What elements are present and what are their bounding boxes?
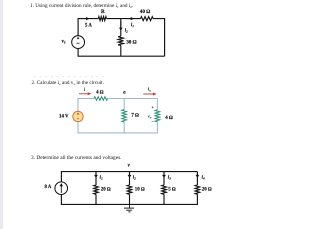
wire bottom rail [78,49,165,57]
svg-text:v: v [128,163,131,168]
svg-text:R: R [101,9,105,15]
voltage source Vs [72,36,85,49]
svg-text:1. Using current division rule: 1. Using current division rule, determin… [30,3,133,9]
svg-text:5 Ω: 5 Ω [168,187,176,193]
resistor 30ohm [118,36,123,45]
wire branch3 lower [163,194,165,204]
current arrow i1 [94,172,98,178]
svg-text:i1: i1 [100,175,103,180]
svg-text:20 Ω: 20 Ω [202,187,212,193]
svg-text:i2: i2 [133,175,136,180]
wire branch1 lower [95,194,97,204]
svg-text:3. Determine all the currents: 3. Determine all the currents and voltag… [31,155,122,161]
wire rail R to 40ohm [107,18,141,20]
svg-text:i1: i1 [131,23,134,28]
svg-text:4 Ω: 4 Ω [96,90,104,96]
current arrow i2 [128,172,132,178]
svg-text:14 V: 14 V [59,114,69,119]
current arrow io (red) [143,93,156,96]
wire middle branch lower [120,46,122,57]
svg-text:i4: i4 [202,175,205,180]
current source arrow head [60,183,64,186]
resistor 20ohm b1 [94,185,99,194]
wire top-left rail [78,19,98,36]
wire right branch lower + bottom rail [61,194,197,204]
svg-text:−: − [151,120,154,125]
resistor 20ohm b4 [195,185,200,194]
wire top rail right of 4ohm [108,98,158,100]
wire top rail left [78,99,94,112]
svg-text:20 Ω: 20 Ω [101,187,111,193]
svg-text:8 A: 8 A [45,185,52,190]
resistor 5ohm b3 [162,185,167,194]
left page-edge strip [0,0,3,229]
svg-text:vo: vo [148,113,152,119]
wire branch2 upper [129,172,131,185]
resistor 7ohm [122,110,127,123]
current arrow i2 [119,21,123,31]
svg-text:7 Ω: 7 Ω [131,112,139,118]
svg-text:i: i [84,88,86,93]
current source 8A [55,182,68,195]
wire right side [153,19,164,57]
wire branch3 upper [163,172,165,185]
svg-text:io: io [148,88,151,93]
wire top rail [61,172,197,182]
voltage source 14V [73,111,83,121]
svg-text:5 A: 5 A [85,23,92,28]
svg-text:i2: i2 [125,28,128,33]
resistor R [98,17,106,21]
svg-text:i3: i3 [168,175,171,180]
ground [124,204,134,212]
resistor 4ohm right [155,110,160,122]
wire branch1 upper [95,172,97,185]
wire right branch lower + bottom rail [78,122,157,133]
resistor 4ohm top [94,97,108,101]
current arrow i (red) [79,92,91,95]
wire right branch upper [156,99,158,110]
svg-text:30 Ω: 30 Ω [126,39,136,45]
svg-text:40 Ω: 40 Ω [140,9,150,15]
svg-text:vs: vs [62,39,66,45]
wire branch2 lower [129,194,131,204]
current arrow i3 [162,172,166,178]
wire right branch upper [196,172,198,185]
svg-text:+: + [151,106,154,111]
wire middle branch upper [120,19,122,36]
resistor 10ohm b2 [127,185,132,194]
current arrow i4 [196,172,200,178]
current arrow i1 [126,17,134,20]
svg-text:10 Ω: 10 Ω [135,187,145,193]
current arrow 5A [80,17,90,20]
resistor 40ohm [141,17,154,21]
wire middle branch upper [123,99,125,110]
faint dotted separator [34,76,104,78]
svg-text:4 Ω: 4 Ω [165,115,173,121]
svg-text:a: a [123,90,126,95]
svg-text:2. Calculate io and vo in the: 2. Calculate io and vo in the circuit. [32,80,104,86]
wire middle branch lower [123,122,125,133]
